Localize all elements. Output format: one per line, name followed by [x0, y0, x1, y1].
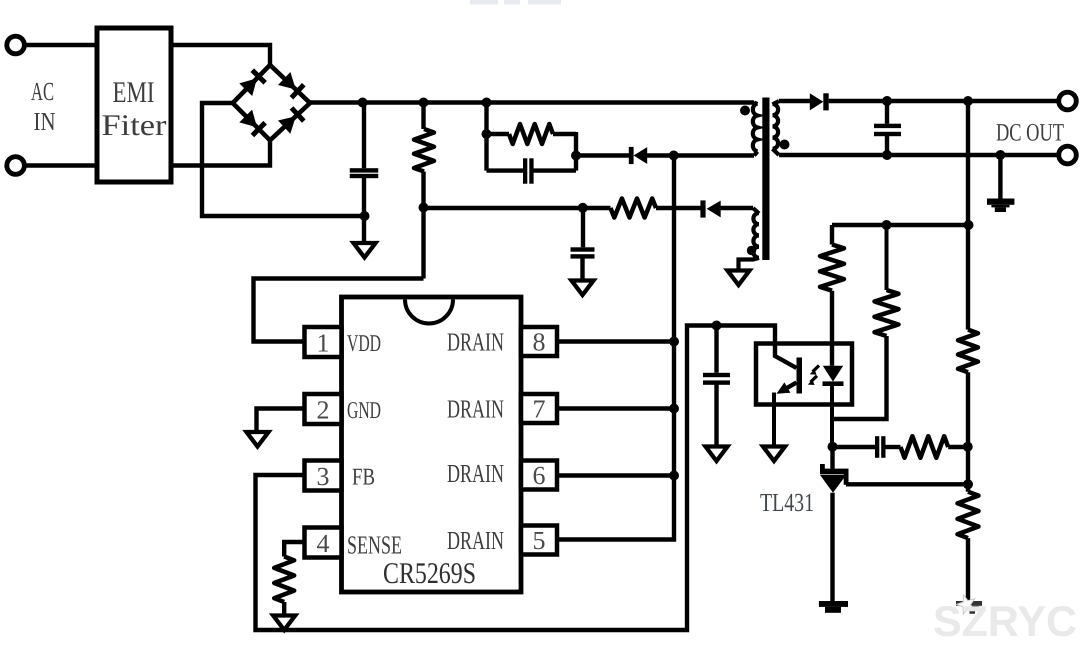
wire AC top terminal to EMI filter	[24, 43, 97, 47]
node drain pin7	[669, 404, 679, 414]
resistor R6 LED parallel	[875, 290, 899, 336]
svg-text:EMI: EMI	[113, 76, 155, 109]
ground TL431 anode	[819, 601, 848, 607]
AC input terminal top	[7, 36, 25, 54]
wire TL431 ref line	[846, 482, 968, 486]
node VDD cap junction	[578, 203, 588, 213]
svg-text:8: 8	[533, 328, 546, 357]
wire VDD routing to pin1	[254, 279, 424, 342]
svg-text:IN: IN	[34, 107, 56, 136]
svg-text:3: 3	[317, 462, 330, 491]
ground aux winding	[728, 271, 750, 286]
resistor R7 divider top	[958, 330, 978, 373]
wire LED series resistor top lead	[830, 225, 834, 245]
wire snubber left side	[484, 103, 488, 171]
node VDD aux junction	[419, 203, 429, 213]
node FB cap junction	[712, 321, 722, 331]
transformer T1 core	[762, 98, 769, 261]
wire TL431 cathode lead	[830, 447, 834, 469]
wire secondary top rail	[779, 99, 810, 103]
capacitor C6 comp	[875, 436, 879, 458]
node snubber junction	[482, 98, 492, 108]
wire VDD cap bottom	[580, 258, 584, 280]
EMI filter block	[97, 28, 171, 182]
node drain pin6	[669, 471, 679, 481]
pin 7 box	[521, 394, 557, 423]
wire clamp diode to primary bottom	[647, 153, 754, 157]
U2 phototransistor base bar	[797, 358, 803, 394]
TL431 U3 triangle	[820, 475, 847, 493]
diode D3 output rectifier	[810, 93, 824, 110]
svg-text:CR5269S: CR5269S	[383, 557, 476, 590]
wire drain bus vertical	[559, 156, 674, 540]
wire VDD cap top	[581, 208, 585, 247]
pin 6 box	[521, 461, 557, 490]
wire divider middle	[966, 372, 970, 491]
capacitor C5 output	[874, 124, 901, 128]
capacitor C3 VDD	[571, 247, 595, 251]
ground divider bottom	[956, 601, 982, 606]
watermark top remnant	[470, 0, 498, 5]
wire feedback bias rail	[832, 223, 968, 227]
AC input terminal bottom	[7, 157, 25, 175]
bridge rectifier BD1 diamond	[233, 65, 310, 140]
transformer T1 primary phase dot	[740, 106, 750, 116]
bridge diode bottom-right	[278, 116, 296, 134]
ground pin2	[247, 432, 269, 447]
node TL431 cathode	[828, 442, 838, 452]
svg-text:AC: AC	[31, 77, 54, 106]
resistor R4 sense	[274, 557, 294, 603]
transformer T1 secondary winding	[773, 101, 780, 155]
pin 2 box	[305, 394, 342, 424]
svg-text:FB: FB	[352, 465, 375, 491]
svg-text:SENSE: SENSE	[347, 531, 402, 560]
node TL431 ref node	[963, 479, 973, 489]
node divider top	[963, 96, 973, 106]
wire FB cap top	[714, 326, 718, 373]
node secondary ground tap	[995, 150, 1005, 160]
transformer T1 aux phase dot	[747, 246, 756, 255]
wire pin7 to drain bus	[559, 406, 674, 410]
node startup resistor junction	[419, 98, 429, 108]
wire divider vertical upper	[966, 101, 970, 330]
DC output terminal bottom	[1059, 146, 1077, 164]
svg-text:VDD: VDD	[347, 331, 381, 357]
wire startup resistor top lead	[421, 103, 425, 130]
resistor R8 divider bottom	[958, 492, 979, 538]
node snubber output	[571, 151, 581, 161]
svg-text:6: 6	[533, 461, 546, 490]
svg-text:DRAIN: DRAIN	[447, 328, 504, 357]
wire bulk cap C1 bottom	[362, 177, 366, 242]
node C1 bottom junction	[360, 211, 370, 221]
U2 LED cathode lead	[830, 386, 834, 447]
ground DC output	[987, 199, 1014, 205]
wire output cap top lead	[885, 101, 889, 124]
node output cap bottom	[882, 150, 892, 160]
U2 light arrows	[811, 366, 820, 383]
TL431 U3 cathode bar	[820, 469, 849, 474]
node comp RC right	[963, 442, 973, 452]
capacitor C2 snubber	[523, 158, 527, 183]
svg-text:DRAIN: DRAIN	[447, 395, 504, 424]
resistor R6 LED parallel top lead	[885, 225, 889, 290]
wire EMI top output to bridge AC1	[171, 45, 270, 66]
wire secondary ground lead	[998, 155, 1002, 199]
node output cap top	[882, 96, 892, 106]
wire AC bottom terminal to EMI filter	[24, 163, 97, 167]
ground primary below C1	[354, 243, 376, 258]
wire bulk cap C1 top	[362, 103, 366, 169]
svg-text:DC OUT: DC OUT	[996, 120, 1064, 147]
wire R6 bottom to LED cathode	[832, 336, 887, 419]
svg-text:5: 5	[533, 526, 546, 555]
svg-text:7: 7	[533, 395, 546, 424]
ground VDD cap	[572, 281, 594, 296]
svg-text:SZRYC: SZRYC	[933, 598, 1077, 646]
wire startup resistor to VDD corner	[421, 172, 425, 279]
node bias tap	[882, 220, 892, 230]
ground opto emitter	[763, 447, 785, 462]
bridge diode top-right	[278, 72, 296, 90]
wire snubber right side	[574, 132, 578, 171]
svg-text:1: 1	[317, 329, 330, 358]
wire pin8 to drain bus	[559, 339, 674, 343]
wire comp RC right lead	[948, 445, 968, 449]
wire output rail to DC+ terminal	[829, 99, 1059, 103]
wire output cap bottom lead	[885, 136, 889, 155]
wire HV rail bridge to transformer primary	[310, 100, 754, 104]
ground FB cap	[706, 447, 728, 462]
resistor R3 aux series	[611, 199, 657, 218]
resistor R9 comp	[901, 436, 949, 458]
capacitor C4 FB	[703, 373, 730, 377]
wire secondary bottom rail	[779, 153, 1059, 157]
U2 phototransistor collector	[775, 344, 797, 369]
bridge diode bottom-left	[239, 110, 257, 128]
op-amp U1 CR5269S body	[342, 297, 522, 592]
watermark star	[957, 595, 975, 614]
wire snubber bottom side	[487, 168, 577, 172]
transformer T1 secondary phase dot	[780, 140, 790, 150]
node divider tap	[964, 220, 974, 230]
resistor R5 LED series	[820, 245, 844, 291]
svg-text:TL431: TL431	[760, 488, 814, 517]
wire sense resistor bottom	[282, 602, 286, 615]
wire LED anode lead	[830, 291, 834, 366]
wire FB pin3 to feedback bus	[256, 326, 776, 631]
node drain bus top	[669, 151, 679, 161]
svg-text:DRAIN: DRAIN	[447, 526, 504, 555]
capacitor C1 bulk	[350, 168, 379, 172]
U2 emitter lead	[772, 393, 776, 447]
U2 phototransistor emitter	[781, 383, 797, 392]
pin 5 box	[521, 526, 557, 555]
wire snubber resistor leads	[487, 132, 577, 136]
svg-text:4: 4	[317, 529, 330, 558]
ground sense resistor	[273, 616, 295, 631]
transformer T1 auxiliary winding	[739, 208, 760, 271]
pin 8 box	[521, 327, 557, 356]
wire aux supply line left	[424, 206, 611, 210]
bridge diode top-left	[239, 78, 257, 96]
DC output terminal top	[1059, 92, 1077, 110]
svg-text:2: 2	[317, 396, 330, 425]
diode D1 clamp	[634, 147, 648, 164]
wire TL431 anode lead	[830, 493, 834, 602]
pin 4 box	[305, 528, 342, 558]
wire comp RC left lead	[833, 445, 876, 449]
wire pin6 to drain bus	[559, 473, 674, 477]
pin 3 box	[305, 461, 342, 491]
node drain pin8	[669, 337, 679, 347]
resistor R1 startup	[414, 129, 434, 172]
transformer T1 primary winding	[753, 103, 758, 156]
U2 LED	[823, 366, 843, 382]
wire comp RC middle lead	[885, 445, 900, 449]
wire EMI bottom output to bridge AC2	[171, 139, 270, 166]
wire snubber to clamp diode	[576, 153, 630, 157]
svg-text:Fiter: Fiter	[102, 109, 167, 142]
diode D2 aux rectifier	[707, 201, 721, 218]
pin 1 box	[305, 327, 342, 357]
wire SENSE pin4	[284, 542, 304, 557]
optocoupler U2 box	[756, 344, 852, 405]
U1 notch	[405, 300, 453, 324]
resistor R2 snubber	[509, 124, 553, 144]
svg-text:GND: GND	[347, 398, 381, 424]
node snubber left mid	[482, 129, 492, 139]
svg-text:DRAIN: DRAIN	[447, 459, 504, 488]
wire aux diode to winding	[720, 206, 753, 210]
wire divider bottom lead	[966, 538, 970, 601]
wire pin2 GND	[257, 409, 305, 432]
wire aux resistor to diode	[656, 206, 701, 210]
node bulk cap junction	[358, 98, 368, 108]
wire bridge negative to primary ground node	[202, 103, 365, 216]
wire FB cap bottom	[714, 384, 718, 446]
